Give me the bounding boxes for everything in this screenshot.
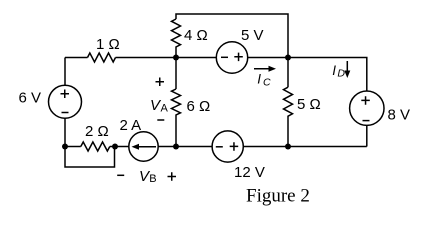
- IC arrow: [254, 66, 276, 72]
- VA minus sign: [157, 119, 164, 121]
- svg-text:2 A: 2 A: [120, 117, 142, 134]
- svg-text:6 Ω: 6 Ω: [187, 98, 211, 115]
- node bottom-left: [62, 144, 68, 150]
- 12V plus sign: [230, 142, 239, 151]
- 2A arrow: [132, 144, 157, 150]
- wire mid row left: [65, 57, 88, 59]
- svg-text:5 Ω: 5 Ω: [297, 96, 321, 113]
- voltage source V 12V circle: [212, 131, 243, 162]
- svg-text:8 V: 8 V: [388, 107, 411, 124]
- svg-text:1 Ω: 1 Ω: [96, 36, 120, 53]
- node bottom 2ohm-right: [112, 144, 118, 150]
- wire left branch down: [64, 58, 66, 86]
- wire bottom row seg3: [158, 146, 212, 148]
- wire right branch top: [288, 58, 367, 92]
- svg-text:4 Ω: 4 Ω: [184, 27, 208, 44]
- VA plus sign: [156, 78, 165, 87]
- svg-text:A: A: [161, 102, 169, 114]
- 12V minus sign: [216, 146, 223, 148]
- wire bottom row seg2: [110, 146, 129, 148]
- svg-text:2 Ω: 2 Ω: [85, 123, 109, 140]
- wire mid row right: [248, 57, 288, 59]
- wire top loop: [176, 14, 288, 58]
- resistor R 1ohm zigzag: [88, 53, 116, 62]
- current source I 2A circle: [129, 132, 158, 161]
- VB minus sign: [117, 174, 124, 176]
- 6V minus sign: [62, 112, 69, 114]
- voltage source V 6V circle: [49, 85, 82, 118]
- 5V minus sign: [221, 56, 228, 58]
- 8V minus sign: [363, 120, 370, 122]
- node top-right: [285, 55, 291, 61]
- VB plus sign: [168, 172, 177, 181]
- resistor R 6ohm zigzag: [172, 89, 181, 147]
- svg-text:Figure 2: Figure 2: [246, 186, 310, 207]
- svg-text:I: I: [257, 71, 261, 86]
- node bottom-mid: [173, 144, 179, 150]
- svg-text:D: D: [337, 68, 345, 80]
- wire bottom row seg1: [65, 146, 81, 148]
- ID arrow: [344, 61, 350, 78]
- resistor R 4ohm zigzag: [172, 19, 181, 58]
- svg-text:5 V: 5 V: [241, 27, 264, 44]
- wire short loop under 2ohm: [65, 147, 115, 168]
- voltage source V 5V circle: [216, 42, 247, 73]
- wire right branch bottom: [366, 125, 368, 146]
- wire 5ohm branch top: [287, 58, 289, 88]
- 6V plus sign: [61, 90, 70, 99]
- wire 6V bottom: [64, 118, 66, 146]
- node bottom-right: [285, 144, 291, 150]
- resistor R 5ohm zigzag: [284, 87, 293, 146]
- svg-text:B: B: [149, 173, 156, 185]
- voltage source V 8V circle: [350, 91, 384, 125]
- svg-text:6 V: 6 V: [19, 90, 42, 107]
- resistor R 2ohm zigzag: [81, 142, 110, 151]
- svg-text:12 V: 12 V: [234, 164, 265, 181]
- 8V plus sign: [361, 96, 370, 105]
- svg-text:C: C: [263, 76, 271, 88]
- wire 6ohm branch top: [175, 58, 177, 90]
- wire bottom row seg4: [243, 146, 366, 148]
- svg-text:I: I: [332, 63, 336, 78]
- 5V plus sign: [234, 53, 243, 62]
- node top-mid: [173, 55, 179, 61]
- wire mid row center: [116, 57, 217, 59]
